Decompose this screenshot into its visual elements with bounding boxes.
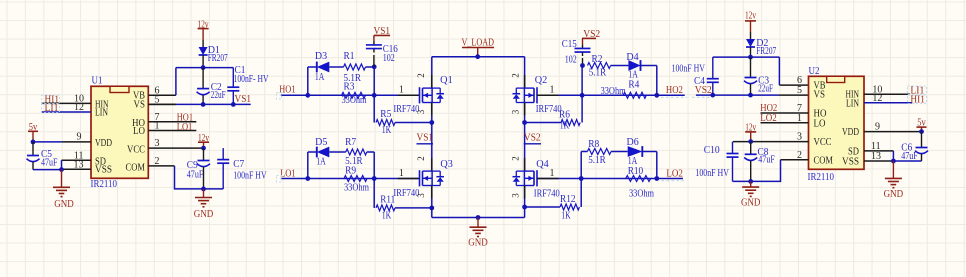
resistor R9 33Ohm: [344, 166, 369, 194]
wire LO1 main row B: [281, 176, 420, 181]
svg-text:GND: GND: [468, 237, 488, 248]
svg-text:COM: COM: [126, 163, 146, 174]
svg-text:C7: C7: [233, 159, 244, 170]
node VCC2 junction: [748, 139, 753, 144]
svg-text:47uF: 47uF: [758, 154, 775, 165]
net label VS1 left: [235, 94, 252, 105]
capacitor C4 100nF HV: [672, 57, 719, 95]
svg-text:LO1: LO1: [177, 122, 193, 133]
wire bottom bus: [432, 215, 525, 220]
wire Q2 source to Q4 drain VS2 rail: [524, 103, 526, 172]
svg-text:VCC: VCC: [127, 144, 145, 155]
net label HI1 right: [908, 94, 927, 105]
svg-text:3: 3: [416, 109, 426, 114]
svg-text:3: 3: [797, 132, 802, 143]
transistor Q3 IRF740: [393, 156, 453, 199]
svg-text:LO2: LO2: [666, 169, 683, 180]
svg-text:13: 13: [74, 159, 84, 170]
svg-text:9: 9: [77, 132, 82, 143]
wire row D corner down: [656, 152, 658, 179]
wire C6 bottom to VSS2: [891, 151, 922, 164]
svg-text:13: 13: [871, 151, 881, 162]
svg-text:3: 3: [511, 193, 521, 198]
svg-text:V_LOAD: V_LOAD: [461, 37, 494, 48]
svg-text:1K: 1K: [382, 211, 392, 222]
svg-text:5: 5: [797, 85, 802, 96]
capacitor C7 100nF HV: [217, 148, 267, 189]
svg-text:R4: R4: [628, 80, 639, 91]
wire row B corner down: [373, 152, 375, 179]
wire VB bus top-left: [176, 65, 233, 95]
svg-text:3: 3: [416, 193, 426, 198]
U1 pin 2 COM: [148, 156, 174, 167]
U2 pin 13 VSS: [864, 151, 893, 162]
wire VB bus top-right: [713, 55, 780, 85]
transistor Q1 IRF740: [393, 73, 452, 115]
svg-text:LIN: LIN: [846, 98, 859, 109]
selection dashes LO1 wire start: [277, 176, 282, 183]
power port VS2 above C15: [582, 29, 600, 45]
svg-text:1: 1: [399, 84, 404, 95]
net label LI1: [42, 103, 60, 114]
svg-text:LO: LO: [133, 126, 145, 137]
svg-text:12: 12: [74, 102, 84, 113]
svg-text:LO2: LO2: [760, 113, 777, 124]
power port 5v left: [28, 122, 38, 142]
U2 pin 3 VCC: [733, 132, 809, 143]
op-amp U2 IR2110 gate driver body: [808, 66, 865, 183]
svg-text:102: 102: [565, 55, 577, 66]
svg-text:2: 2: [511, 156, 521, 161]
svg-text:9: 9: [875, 122, 880, 133]
power port VS1 above C16: [374, 26, 391, 41]
svg-text:Q3: Q3: [440, 159, 453, 170]
net label HO2 gate row: [666, 85, 683, 96]
capacitor C3 22uF: [744, 57, 773, 95]
U2 pin 9 VDD: [864, 122, 922, 133]
svg-text:D5: D5: [315, 137, 327, 148]
capacitor C1 100nF-HV: [227, 65, 269, 104]
wire Q3 source down: [431, 186, 433, 218]
svg-text:1: 1: [399, 168, 404, 179]
U2 pin 6 VB wire: [779, 84, 808, 86]
svg-text:R5: R5: [380, 109, 391, 120]
svg-text:1A: 1A: [315, 72, 325, 83]
wire C16 junction down: [372, 64, 377, 95]
ground U2 VCC GND: [741, 181, 761, 208]
wire row C corner down: [656, 66, 658, 96]
net label VS2 right: [695, 85, 712, 96]
svg-text:U2: U2: [809, 66, 820, 77]
svg-text:R3: R3: [344, 82, 355, 93]
svg-text:VDD: VDD: [842, 127, 859, 138]
wire Q1 source to Q3 drain VS1 rail: [431, 103, 433, 172]
svg-text:12v: 12v: [745, 11, 756, 22]
svg-text:100nF- HV: 100nF- HV: [234, 74, 270, 85]
diode D4 1A: [626, 52, 656, 80]
U1 pin 7 HO: [148, 112, 196, 123]
power port 12v mid-left: [198, 133, 209, 148]
svg-text:VDD: VDD: [95, 138, 112, 149]
U2 pin 1 LO: [761, 113, 809, 124]
net label LO1 pin1: [177, 122, 193, 133]
svg-text:Q4: Q4: [536, 159, 549, 170]
selection dashes HO1 wire start: [277, 93, 282, 100]
U2 pin 7 HO: [761, 103, 809, 114]
svg-text:3: 3: [155, 138, 160, 149]
node VDD2 junction: [919, 129, 924, 134]
svg-text:VCC: VCC: [814, 137, 832, 148]
resistor R6 1K: [522, 95, 582, 131]
svg-text:1A: 1A: [316, 157, 326, 168]
svg-text:VSS: VSS: [842, 156, 859, 167]
svg-text:R12: R12: [560, 194, 576, 205]
power port 12v top-right: [745, 11, 756, 32]
svg-text:1: 1: [155, 121, 160, 132]
power port V_LOAD: [461, 37, 494, 59]
svg-text:102: 102: [383, 53, 395, 64]
net label HO1 gate row: [279, 85, 295, 96]
svg-text:2: 2: [416, 156, 426, 161]
net label HO2 pin7: [760, 103, 777, 114]
net label LI1: [908, 86, 927, 97]
resistor R11 1K: [374, 179, 434, 222]
capacitor C5 47uF: [27, 142, 58, 170]
svg-text:33Ohm: 33Ohm: [629, 188, 654, 199]
resistor R3 33Ohm: [342, 82, 367, 107]
wire riser row D: [580, 152, 582, 179]
resistor R7 5.1R: [345, 137, 374, 167]
wire riser row C: [581, 66, 583, 96]
resistor R10 33Ohm: [626, 166, 654, 199]
svg-text:2: 2: [511, 73, 521, 78]
svg-text:VS: VS: [134, 99, 146, 110]
svg-text:Q2: Q2: [535, 75, 548, 86]
svg-text:IRF740: IRF740: [536, 104, 562, 115]
net label VS1 mid: [417, 133, 434, 144]
svg-text:D6: D6: [627, 137, 639, 148]
diode D5 1A: [308, 137, 346, 168]
transistor Q2 IRF740: [511, 73, 562, 115]
power port 12v mid-right: [745, 123, 756, 142]
svg-text:VSS: VSS: [95, 165, 112, 176]
U2 pin 2 COM: [781, 150, 809, 161]
svg-text:33Ohm: 33Ohm: [342, 95, 367, 106]
capacitor C2 22uF: [197, 68, 226, 105]
svg-text:1K: 1K: [560, 120, 570, 131]
svg-text:R7: R7: [345, 137, 356, 148]
svg-text:LIN: LIN: [95, 108, 108, 119]
wire 5v to VDD: [33, 141, 62, 143]
svg-text:R10: R10: [628, 166, 644, 177]
selection dashes VS2 label: [692, 96, 712, 98]
svg-text:R9: R9: [345, 166, 356, 177]
diode D2 FR207: [746, 32, 776, 57]
resistor R12 1K: [522, 179, 581, 222]
net label HO1 pin7: [177, 113, 193, 124]
svg-text:COM: COM: [814, 155, 834, 166]
svg-text:Q1: Q1: [440, 75, 453, 86]
svg-text:HO1: HO1: [279, 85, 295, 96]
selection dashes LO2 label: [662, 180, 687, 182]
svg-text:22uF: 22uF: [211, 90, 226, 101]
svg-text:12: 12: [872, 93, 882, 104]
svg-text:5.1R: 5.1R: [588, 155, 606, 166]
node VDD1 junction: [31, 140, 36, 145]
net label VS2 mid: [524, 133, 541, 144]
wire Q4 source down: [524, 186, 526, 218]
capacitor C6 47uF: [901, 132, 928, 162]
ground U1 VCC GND: [194, 189, 214, 220]
svg-text:47uF: 47uF: [187, 170, 204, 181]
svg-text:U1: U1: [92, 76, 103, 87]
net label LO2 pin1: [760, 113, 777, 124]
svg-text:C10: C10: [704, 145, 720, 156]
diode D3 1A: [308, 51, 344, 83]
svg-text:100nF HV: 100nF HV: [233, 170, 267, 181]
node VCC1 junction: [201, 146, 206, 151]
svg-text:HO2: HO2: [666, 85, 683, 96]
svg-text:VS: VS: [814, 90, 826, 101]
svg-text:GND: GND: [54, 199, 74, 210]
U1 pin 5 VS: [148, 95, 176, 106]
U2 pin 11 SD: [864, 141, 893, 152]
power port 12v top-left: [198, 19, 209, 40]
diode D1 FR207: [199, 40, 228, 68]
ground U2 right GND: [884, 161, 904, 200]
svg-text:33Ohm: 33Ohm: [344, 183, 369, 194]
svg-text:1K: 1K: [382, 125, 392, 136]
wire Q1 drain: [431, 57, 433, 88]
svg-text:2: 2: [416, 73, 426, 78]
resistor R2 5.1R: [588, 54, 629, 79]
ground U1 left GND: [53, 170, 74, 210]
wire COM to caps bottom: [175, 166, 224, 191]
svg-text:R6: R6: [559, 110, 570, 121]
svg-text:1: 1: [550, 168, 555, 179]
svg-text:VS1: VS1: [235, 94, 252, 105]
svg-text:100nF HV: 100nF HV: [672, 64, 706, 75]
svg-text:2: 2: [155, 156, 160, 167]
op-amp U1 IR2110 gate driver body: [91, 76, 149, 191]
U1 pin 9 VDD: [62, 132, 91, 143]
svg-text:LO: LO: [814, 118, 826, 129]
resistor R1 5.1R: [344, 51, 375, 84]
svg-text:R8: R8: [588, 139, 599, 150]
wire HO1 main row A: [281, 93, 420, 98]
svg-text:VS2: VS2: [524, 133, 541, 144]
svg-text:GND: GND: [884, 189, 904, 200]
svg-text:1: 1: [797, 113, 802, 124]
selection dashes HO2 label: [661, 96, 687, 98]
wire V_LOAD top bus: [432, 56, 525, 58]
svg-text:VS1: VS1: [417, 133, 434, 144]
power port 5v right: [917, 117, 927, 131]
svg-text:D3: D3: [315, 51, 327, 62]
U2 pin 6 number: [797, 75, 802, 86]
U2 pin 12 LIN: [864, 93, 912, 104]
U2 pin 10 HIN: [864, 84, 910, 95]
svg-text:47uF: 47uF: [41, 157, 58, 168]
svg-text:R2: R2: [592, 54, 603, 65]
net label HI1: [42, 95, 60, 106]
U1 pin 10 HIN: [42, 94, 92, 105]
node row C branch junction: [580, 63, 585, 68]
wire VS2 bus pin5: [696, 93, 809, 98]
capacitor C16 102: [366, 41, 398, 67]
capacitor C8 47uF: [744, 142, 775, 182]
svg-text:2: 2: [797, 150, 802, 161]
svg-text:1K: 1K: [561, 211, 571, 222]
resistor R8 5.1R: [581, 139, 628, 166]
svg-text:LO1: LO1: [280, 168, 296, 179]
ground bridge GND: [468, 218, 488, 249]
U1 pin 12 LIN: [42, 102, 92, 113]
capacitor C15 102: [562, 39, 591, 66]
wire Q2 gate main row C: [537, 93, 685, 98]
capacitor C9 47uF: [187, 148, 210, 189]
svg-text:5.1R: 5.1R: [589, 68, 607, 79]
resistor R4 33Ohm: [601, 80, 647, 99]
diode D6 1A: [627, 137, 657, 167]
svg-text:C15: C15: [562, 39, 577, 50]
wire riser row A: [307, 67, 309, 95]
svg-text:GND: GND: [741, 198, 761, 209]
svg-text:R1: R1: [344, 51, 355, 62]
U1 pin 3 VCC: [148, 138, 203, 149]
svg-text:D4: D4: [626, 52, 638, 63]
svg-text:GND: GND: [194, 209, 214, 220]
net label LO2 gate row: [666, 169, 683, 180]
wire C5 bottom to VSS: [33, 160, 64, 172]
U1 pin 11 SD: [62, 150, 92, 161]
svg-text:FR207: FR207: [208, 53, 228, 64]
U1 pin 13 VSS: [62, 159, 92, 170]
capacitor C10 100nF HV: [695, 142, 738, 182]
transistor Q4 IRF740: [511, 156, 560, 199]
net label LO1 gate row: [280, 168, 296, 179]
svg-text:IR2110: IR2110: [808, 172, 835, 183]
svg-text:FR207: FR207: [756, 46, 776, 57]
svg-text:IR2110: IR2110: [91, 179, 118, 190]
svg-text:22uF: 22uF: [758, 83, 773, 94]
svg-text:6: 6: [797, 75, 802, 86]
wire COM2 to caps bottom: [733, 160, 781, 184]
U1 pin 1 LO: [148, 121, 196, 132]
svg-text:33Ohm: 33Ohm: [601, 86, 626, 97]
svg-text:3: 3: [511, 109, 521, 114]
svg-text:IRF740: IRF740: [534, 189, 560, 200]
wire VS1 bus pin5: [148, 102, 250, 107]
svg-text:100nF HV: 100nF HV: [695, 168, 729, 179]
svg-text:1: 1: [550, 84, 555, 95]
svg-text:47uF: 47uF: [901, 151, 918, 162]
wire Q2 drain: [524, 57, 526, 88]
svg-text:VS2: VS2: [695, 85, 712, 96]
U2 pin 5 VS: [797, 85, 802, 96]
wire riser row B: [307, 152, 309, 179]
wire Q4 gate main row D: [537, 176, 683, 181]
U1 pin 6 VB: [148, 85, 176, 96]
resistor R5 1K: [374, 95, 434, 136]
